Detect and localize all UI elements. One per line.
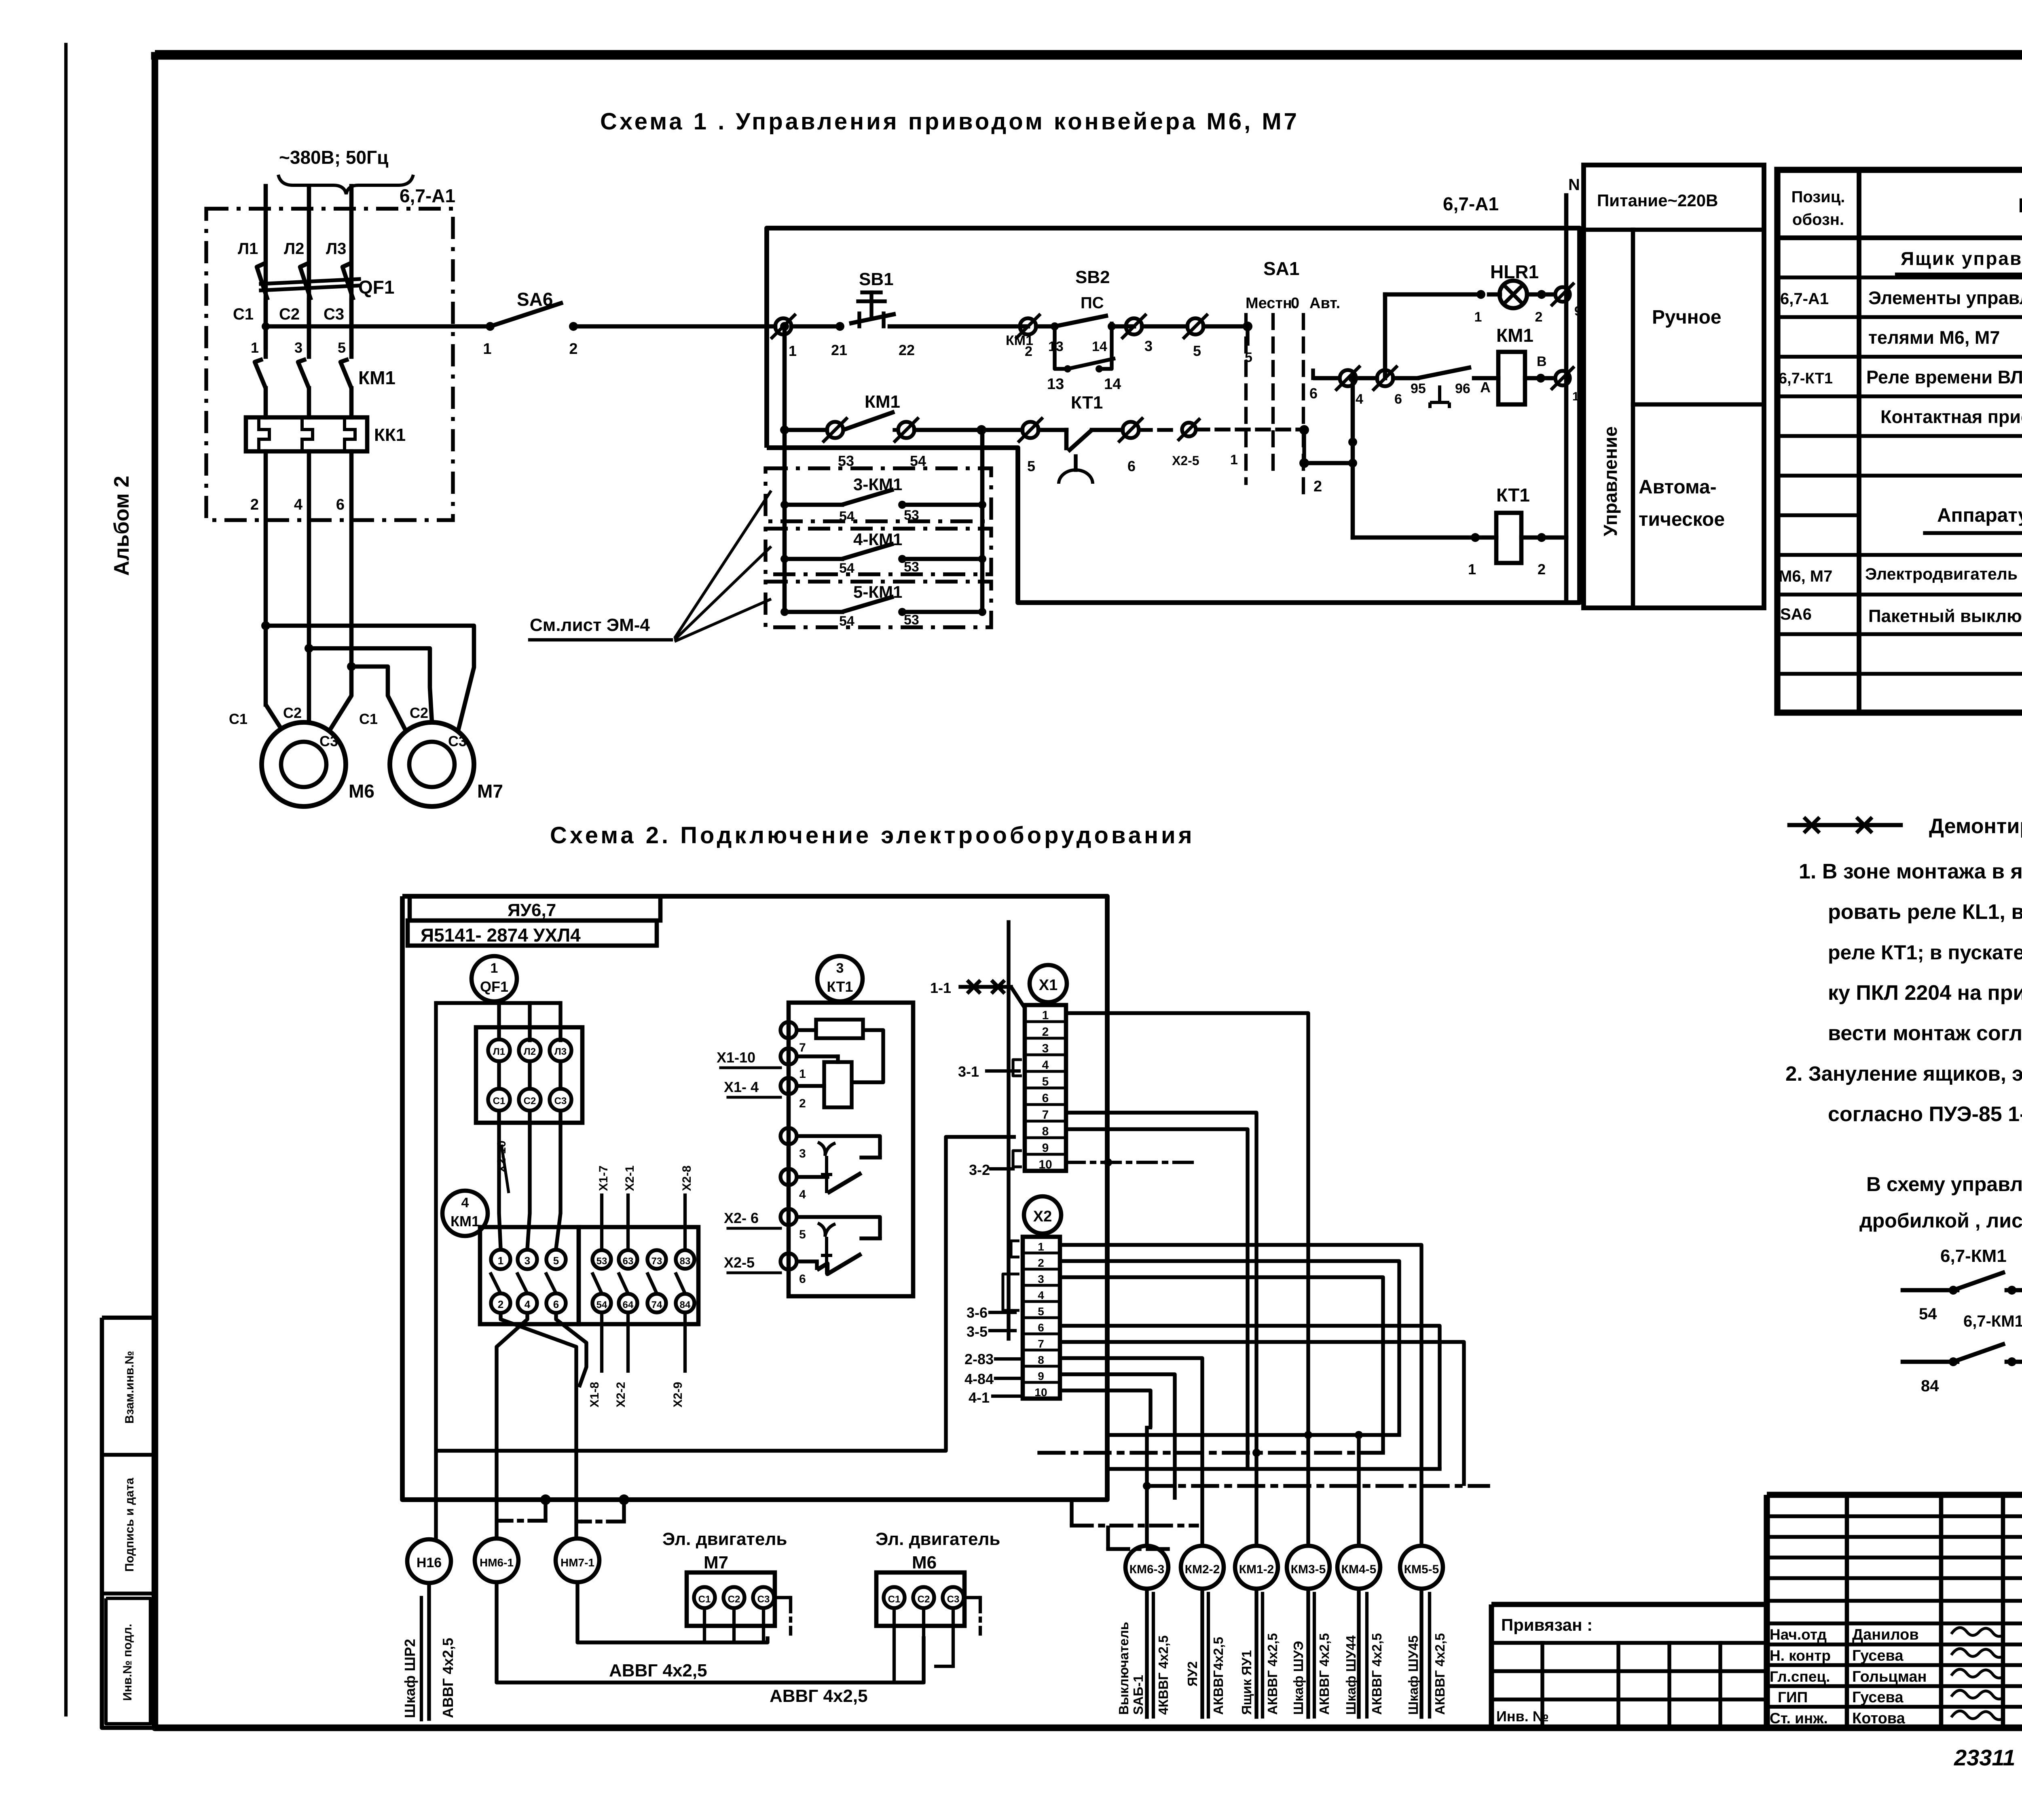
svg-text:5: 5 xyxy=(1027,458,1035,474)
wire lamp rung left xyxy=(1385,292,1481,297)
svg-text:Элементы управления электрод: Элементы управления электродвига- xyxy=(1868,288,2022,308)
svg-text:АКВВГ4х2,5: АКВВГ4х2,5 xyxy=(1211,1637,1226,1715)
svg-text:Эл. двигатель: Эл. двигатель xyxy=(876,1529,1000,1549)
wire branch to M7 C2 xyxy=(309,648,432,722)
svg-text:4: 4 xyxy=(461,1195,469,1211)
svg-text:Местн.: Местн. xyxy=(1246,295,1297,312)
svg-text:Х2-9: Х2-9 xyxy=(671,1382,685,1407)
parts table outer xyxy=(1777,170,2022,713)
svg-text:84: 84 xyxy=(1921,1377,1939,1395)
contactor coil KM1 xyxy=(1498,352,1525,404)
wire X2 row7 right xyxy=(1060,1342,1464,1486)
svg-text:~380В; 50Гц: ~380В; 50Гц xyxy=(279,147,388,168)
svg-text:6: 6 xyxy=(1309,385,1318,402)
svg-text:Гусева: Гусева xyxy=(1852,1689,1904,1706)
svg-text:5: 5 xyxy=(1193,343,1201,359)
position circle KM1 xyxy=(442,1191,488,1236)
svg-text:1: 1 xyxy=(1038,1240,1044,1253)
svg-text:14: 14 xyxy=(1104,376,1121,393)
KT1 coil inner xyxy=(797,1054,838,1058)
svg-text:4: 4 xyxy=(294,496,302,513)
svg-text:С1: С1 xyxy=(698,1594,711,1605)
QF1 terminal box xyxy=(476,1027,582,1123)
aux circles row1 xyxy=(592,1250,611,1269)
svg-text:53: 53 xyxy=(904,612,919,628)
X1 plug bracket row4 xyxy=(1013,1060,1022,1076)
svg-text:10: 10 xyxy=(1038,1158,1052,1171)
terminal 54 xyxy=(895,428,898,432)
svg-text:4-1: 4-1 xyxy=(969,1389,990,1406)
svg-text:5-КМ1: 5-КМ1 xyxy=(853,582,902,601)
svg-text:Х1- 4: Х1- 4 xyxy=(724,1079,759,1095)
wire X2 row3 right xyxy=(1060,1277,1383,1453)
node 2 KT1 xyxy=(1521,535,1566,540)
svg-text:3: 3 xyxy=(1038,1273,1044,1285)
wire branch to M7 C3 xyxy=(351,667,406,730)
svg-text:ГИП: ГИП xyxy=(1778,1689,1808,1706)
svg-text:QF1: QF1 xyxy=(480,978,508,995)
phase wire L1 xyxy=(264,186,268,348)
motor M7 ground dashdot xyxy=(775,1596,791,1599)
thermal relay KK1 xyxy=(246,417,367,451)
KT1 terminal 4 xyxy=(780,1169,797,1185)
svg-text:НМ7-1: НМ7-1 xyxy=(560,1556,594,1569)
svg-text:С2: С2 xyxy=(279,305,300,323)
vertical wire right of aux boxes xyxy=(980,430,985,612)
enclosure YaU67 xyxy=(402,896,1107,1500)
terminal 9 xyxy=(1555,287,1570,302)
svg-text:4: 4 xyxy=(799,1188,806,1201)
svg-text:73: 73 xyxy=(651,1256,662,1267)
SA1 contact dot rung1 xyxy=(1243,322,1252,331)
svg-text:2: 2 xyxy=(1038,1257,1044,1269)
svg-text:5: 5 xyxy=(553,1255,559,1267)
aux 4-KM1 wire xyxy=(785,557,842,561)
svg-text:КМ1-2: КМ1-2 xyxy=(1239,1563,1274,1576)
svg-text:Гольцман: Гольцман xyxy=(1852,1668,1927,1685)
svg-text:4-КМ1: 4-КМ1 xyxy=(853,530,902,549)
motor feed wire 3 xyxy=(349,451,354,667)
node 1 KT1 xyxy=(1471,533,1480,542)
svg-text:НLR1: НLR1 xyxy=(1490,261,1539,282)
svg-text:Ручное: Ручное xyxy=(1652,307,1722,328)
wire X2 row9 right xyxy=(1060,1374,1175,1500)
phase wire L2 xyxy=(307,186,311,348)
wire X2 row8 right xyxy=(1060,1358,1202,1546)
node 22 xyxy=(890,324,1028,329)
svg-text:2: 2 xyxy=(1313,478,1322,495)
KM1 circles row1 xyxy=(491,1250,510,1269)
svg-text:АВВГ 4х2,5: АВВГ 4х2,5 xyxy=(770,1686,868,1706)
svg-text:1: 1 xyxy=(789,343,797,359)
svg-text:SАБ-1: SАБ-1 xyxy=(1131,1675,1146,1715)
node 2 lamp xyxy=(1527,292,1555,297)
svg-text:4-84: 4-84 xyxy=(964,1371,994,1387)
bus wire 1 xyxy=(1107,1433,1399,1437)
wire X1 row10 dashdot right xyxy=(1066,1161,1197,1164)
motor feed wire 1 xyxy=(264,451,268,705)
svg-text:Шкаф ШУЭ: Шкаф ШУЭ xyxy=(1291,1641,1306,1715)
N line xyxy=(1564,195,1569,599)
svg-text:АКВВГ 4х2,5: АКВВГ 4х2,5 xyxy=(1369,1633,1384,1715)
wire lamp to KM coil rung xyxy=(1383,294,1387,378)
svg-text:4: 4 xyxy=(1042,1058,1049,1072)
svg-text:вести монтаж согласно схе: вести монтаж согласно схеме 2 xyxy=(1828,1022,2022,1045)
svg-text:Эл. двигатель: Эл. двигатель xyxy=(662,1529,787,1549)
mode divider vertical xyxy=(1631,230,1635,608)
svg-text:ровать реле КL1, вместо не: ровать реле КL1, вместо него установить xyxy=(1828,900,2022,924)
svg-text:обозн.: обозн. xyxy=(1792,211,1844,229)
svg-text:21: 21 xyxy=(831,342,847,358)
svg-text:С1: С1 xyxy=(359,711,378,727)
svg-text:64: 64 xyxy=(623,1299,634,1310)
ground hook dashdot right 1 xyxy=(1070,1500,1073,1526)
svg-text:5: 5 xyxy=(338,339,346,356)
switch SA6 xyxy=(486,322,495,331)
svg-text:Х2-5: Х2-5 xyxy=(724,1254,755,1271)
svg-text:Х1-10: Х1-10 xyxy=(717,1049,755,1066)
X1 plug bracket row10 xyxy=(1013,1151,1022,1167)
svg-text:Шкаф ШР2: Шкаф ШР2 xyxy=(402,1639,418,1718)
aux blades xyxy=(592,1272,602,1293)
svg-text:ЯУ2: ЯУ2 xyxy=(1185,1661,1200,1687)
svg-text:Позиц.: Позиц. xyxy=(1791,188,1845,206)
svg-text:SА6: SА6 xyxy=(517,289,553,310)
KM1 bottom diagonals xyxy=(501,1313,576,1539)
svg-text:2: 2 xyxy=(250,496,259,513)
KT1 terminal 1 xyxy=(780,1048,797,1064)
position circle QF1 xyxy=(472,956,517,1001)
terminal 2 SB2 xyxy=(1020,318,1036,334)
QF1 internal links xyxy=(497,1061,501,1089)
svg-text:6: 6 xyxy=(1042,1092,1049,1105)
parts table column lines xyxy=(1857,170,1861,713)
drop KM5-5 xyxy=(1421,1486,1422,1546)
svg-text:2: 2 xyxy=(498,1298,503,1310)
svg-text:2: 2 xyxy=(1538,561,1546,578)
svg-text:1: 1 xyxy=(483,341,491,358)
contact KM1 pole 1 xyxy=(264,326,268,357)
KM1 blades xyxy=(490,1272,501,1293)
svg-text:2: 2 xyxy=(799,1097,806,1110)
H16 cable down xyxy=(427,1583,431,1719)
junction dot bus 1 xyxy=(540,1494,551,1505)
svg-text:1. В зоне монтажа в ящик: 1. В зоне монтажа в ящике ЯУ6,7 : демонт… xyxy=(1799,860,2022,883)
svg-text:тическое: тическое xyxy=(1639,509,1725,530)
rung2 wire mid xyxy=(914,428,1022,432)
svg-text:Выключатель: Выключатель xyxy=(1116,1622,1131,1715)
contact 6,7-KM1 lower xyxy=(1903,1360,1957,1364)
terminal 53 xyxy=(827,422,843,438)
KM1 circles row2 xyxy=(491,1293,510,1313)
wire X1-10 hook xyxy=(436,1137,1016,1451)
svg-text:2: 2 xyxy=(1535,309,1543,325)
KT1 contact 5-6 xyxy=(797,1217,880,1238)
SA1 dashed line Mestn xyxy=(1244,315,1248,483)
motor M7 terminal wires xyxy=(703,1608,706,1642)
svg-text:SВ2: SВ2 xyxy=(1075,267,1110,287)
svg-text:КМ5-5: КМ5-5 xyxy=(1404,1563,1439,1576)
KT1 terminal 5 xyxy=(780,1209,797,1225)
bus wire 3 xyxy=(1107,1467,1440,1471)
svg-text:3: 3 xyxy=(525,1255,530,1267)
connector strip X2 xyxy=(1023,1237,1060,1399)
KM1 bypass branch xyxy=(1055,326,1068,369)
svg-text:М6: М6 xyxy=(349,781,374,802)
svg-text:6: 6 xyxy=(1038,1321,1044,1334)
svg-text:9: 9 xyxy=(1042,1141,1049,1155)
brace under supply label xyxy=(278,175,413,194)
svg-text:М7: М7 xyxy=(477,781,503,802)
svg-text:3: 3 xyxy=(799,1147,806,1160)
label bar Ya5141 xyxy=(408,921,657,946)
KM1 aux terminal box xyxy=(579,1227,698,1324)
svg-text:7: 7 xyxy=(1042,1108,1049,1122)
svg-text:Х2-8: Х2-8 xyxy=(680,1166,694,1191)
svg-text:Схема 1 . Управления приводо: Схема 1 . Управления приводом конвейера … xyxy=(600,108,1299,135)
svg-text:4: 4 xyxy=(1038,1289,1044,1302)
svg-text:М7: М7 xyxy=(704,1553,728,1572)
svg-text:КМ2-2: КМ2-2 xyxy=(1185,1563,1220,1576)
svg-text:АКВВГ 4х2,5: АКВВГ 4х2,5 xyxy=(1317,1633,1332,1715)
svg-text:Х2-2: Х2-2 xyxy=(614,1382,628,1407)
breaker QF1 crossbar xyxy=(261,279,359,284)
svg-text:Реле времени ВЛ64УХЛ4,1, 220В,: Реле времени ВЛ64УХЛ4,1, 220В, 50Гц xyxy=(1866,367,2022,387)
svg-text:8: 8 xyxy=(1038,1354,1044,1366)
svg-text:54: 54 xyxy=(839,614,854,629)
svg-text:4: 4 xyxy=(1356,392,1363,407)
HM7-1 cable down xyxy=(577,1582,768,1642)
svg-text:М6: М6 xyxy=(912,1553,937,1572)
svg-text:Демонтировать: Демонтировать xyxy=(1929,815,2022,838)
wire X2 row10 right xyxy=(1060,1390,1151,1428)
svg-text:В: В xyxy=(1537,354,1547,369)
svg-text:6: 6 xyxy=(336,496,345,513)
vertical wire rung1 to rung2 xyxy=(783,326,787,430)
svg-text:3: 3 xyxy=(836,961,844,976)
svg-text:КК1: КК1 xyxy=(374,425,406,445)
svg-text:КМ1: КМ1 xyxy=(1006,333,1033,348)
KT1 terminal 7 xyxy=(780,1022,797,1038)
KT1 delayed closing contact xyxy=(1038,428,1066,432)
svg-text:С2: С2 xyxy=(728,1594,740,1605)
svg-text:С3: С3 xyxy=(947,1594,960,1605)
svg-text:Питание~220В: Питание~220В xyxy=(1597,191,1718,210)
svg-text:54: 54 xyxy=(839,561,854,576)
breaker QF1 pole 3 xyxy=(343,263,353,300)
drop KM4-5 xyxy=(1357,1435,1360,1546)
svg-text:4: 4 xyxy=(525,1298,531,1310)
vertical wire to KT1 rung xyxy=(1351,378,1355,538)
wire X1 row7 right xyxy=(1066,1113,1256,1453)
svg-text:2: 2 xyxy=(569,341,577,358)
svg-text:6,7-А1: 6,7-А1 xyxy=(1780,290,1829,308)
terminal 5 rung2 xyxy=(1022,422,1038,438)
svg-text:3-2: 3-2 xyxy=(969,1162,990,1178)
svg-text:Инв.№ подл.: Инв.№ подл. xyxy=(121,1624,134,1701)
svg-text:Л3: Л3 xyxy=(554,1046,567,1057)
svg-text:С3: С3 xyxy=(448,733,467,749)
svg-text:5: 5 xyxy=(1042,1075,1049,1088)
SA1 dashed line Avt xyxy=(1302,315,1305,497)
KT1 terminal 2 xyxy=(780,1078,797,1094)
svg-text:Ящик управления Я5141-2874 У: Ящик управления Я5141-2874 УХЛ4 xyxy=(1901,248,2022,269)
svg-text:6,7-А1: 6,7-А1 xyxy=(400,185,455,206)
breaker QF1 pole 2 xyxy=(300,263,311,300)
svg-text:А: А xyxy=(1480,379,1491,396)
svg-text:ку ПКЛ 2204 на приставку П: ку ПКЛ 2204 на приставку ПКЛ 4004; произ… xyxy=(1828,981,2022,1005)
svg-text:С2: С2 xyxy=(918,1594,930,1605)
title block signature columns xyxy=(1845,1495,1849,1728)
sheet frame top thick line xyxy=(155,52,2022,60)
svg-text:1: 1 xyxy=(498,1255,503,1267)
bus wire 4 xyxy=(1147,1484,1488,1488)
contact SB2 with KM1 bypass xyxy=(1036,324,1055,329)
control mode box xyxy=(1584,165,1764,608)
cable circle КМ2-2 xyxy=(1181,1546,1224,1589)
svg-text:Котова: Котова xyxy=(1852,1710,1906,1727)
svg-text:Х1-8: Х1-8 xyxy=(588,1382,601,1407)
svg-text:С3: С3 xyxy=(319,733,338,749)
svg-text:КТ1: КТ1 xyxy=(1071,393,1103,413)
wire X2 row6 right xyxy=(1060,1326,1440,1469)
dashed box 6,7-A1 xyxy=(206,209,453,520)
KM1 main contact blades xyxy=(255,359,266,388)
HM6-1 cable down xyxy=(497,1582,924,1682)
title block small rows xyxy=(1767,1514,2022,1518)
terminal 5 rung1 xyxy=(1187,318,1203,334)
ground hook dashdot right 2 xyxy=(1106,1526,1110,1549)
QF1 feeder drops xyxy=(497,1003,501,1039)
wire X2 row1 right xyxy=(1060,1245,1421,1546)
svg-text:1: 1 xyxy=(1468,561,1476,578)
contact 6,7-KM1 upper xyxy=(1903,1288,1957,1293)
svg-text:2: 2 xyxy=(1042,1025,1049,1039)
vertical wire to aux boxes xyxy=(783,430,787,612)
svg-text:С3: С3 xyxy=(324,305,344,323)
svg-text:КМ1: КМ1 xyxy=(451,1213,480,1230)
motor M6 xyxy=(262,722,346,806)
dash wire to SA1 xyxy=(1196,427,1304,431)
position circle KT1 xyxy=(817,956,863,1001)
svg-text:Инв. №: Инв. № xyxy=(1496,1708,1549,1725)
svg-text:9: 9 xyxy=(1574,304,1582,318)
svg-text:63: 63 xyxy=(623,1256,634,1267)
svg-text:С1: С1 xyxy=(493,1096,505,1107)
svg-text:Х1-7: Х1-7 xyxy=(597,1166,610,1191)
connector circle X2 xyxy=(1024,1196,1061,1234)
svg-text:АВВГ 4х2,5: АВВГ 4х2,5 xyxy=(609,1661,707,1680)
svg-text:53: 53 xyxy=(904,508,919,523)
svg-text:95: 95 xyxy=(1411,381,1426,396)
svg-text:SА6: SА6 xyxy=(1780,605,1812,623)
svg-text:Данилов: Данилов xyxy=(1852,1626,1919,1643)
svg-text:6: 6 xyxy=(553,1298,559,1310)
wire SA1 avt to KT1 rung xyxy=(1299,425,1309,435)
H16 riser vertical xyxy=(434,1003,438,1540)
svg-text:КМ1: КМ1 xyxy=(1496,325,1533,346)
drop KM1-2 xyxy=(1254,1453,1258,1546)
svg-text:23311 - 01: 23311 - 01 xyxy=(1954,1745,2022,1770)
privyazan box xyxy=(1491,1604,1767,1728)
svg-text:Я5141- 2874 УХЛ4: Я5141- 2874 УХЛ4 xyxy=(421,925,581,946)
svg-text:9: 9 xyxy=(1038,1370,1044,1382)
svg-text:Альбом 2: Альбом 2 xyxy=(110,476,133,576)
svg-text:Х2- 6: Х2- 6 xyxy=(724,1210,759,1226)
svg-text:Наименование: Наименование xyxy=(2018,194,2022,217)
left strip box xyxy=(102,1318,155,1728)
mode divider horizontal xyxy=(1633,402,1764,407)
aux box 4-KM1 xyxy=(766,529,991,574)
label bar YaU67 xyxy=(410,896,660,921)
svg-text:3: 3 xyxy=(1042,1042,1049,1055)
svg-text:96: 96 xyxy=(1455,381,1470,396)
svg-text:6,7-КМ1: 6,7-КМ1 xyxy=(1963,1312,2022,1330)
svg-text:Ящик ЯУ1: Ящик ЯУ1 xyxy=(1239,1650,1254,1715)
svg-text:0: 0 xyxy=(1291,295,1299,312)
motor feed wire 2 xyxy=(307,451,311,648)
svg-text:Авт.: Авт. xyxy=(1309,295,1340,312)
svg-text:С1: С1 xyxy=(229,711,247,727)
drop KM2-2 xyxy=(1202,1486,1203,1546)
svg-text:Гл.спец.: Гл.спец. xyxy=(1770,1668,1830,1685)
KM1 terminal box xyxy=(480,1227,579,1324)
svg-text:В схему управления: В схему управления xyxy=(1866,1173,2022,1196)
svg-text:3-1: 3-1 xyxy=(958,1063,979,1080)
callout fan lines xyxy=(675,491,771,638)
svg-text:6: 6 xyxy=(1127,458,1136,474)
svg-text:1: 1 xyxy=(251,339,259,356)
svg-text:Шкаф ШУ45: Шкаф ШУ45 xyxy=(1406,1636,1421,1715)
KT1 contact 3-4 xyxy=(797,1136,880,1158)
svg-text:1-1: 1-1 xyxy=(930,980,951,996)
svg-text:КТ1: КТ1 xyxy=(827,978,853,995)
ground hook NM6-1 xyxy=(544,1500,547,1521)
parts table row lines xyxy=(1777,235,2022,240)
svg-text:5: 5 xyxy=(1038,1305,1044,1318)
aux stubs down xyxy=(600,1312,603,1371)
node 21 xyxy=(835,322,844,331)
svg-text:Л2: Л2 xyxy=(284,240,304,258)
svg-text:7: 7 xyxy=(1038,1337,1044,1350)
aux circles row2 xyxy=(592,1294,611,1312)
node 6 wire from SA1 xyxy=(1313,376,1340,381)
terminal 6 rung xyxy=(1377,370,1393,386)
svg-text:С2: С2 xyxy=(410,705,428,721)
svg-text:53: 53 xyxy=(904,559,919,575)
svg-text:83: 83 xyxy=(680,1256,691,1267)
wire coil to N xyxy=(1525,376,1555,381)
QF1 feeder from H16 riser xyxy=(436,1001,561,1005)
aux box 5-KM1 xyxy=(766,582,991,627)
bus wire 2 xyxy=(1039,1451,1383,1454)
svg-text:Л1: Л1 xyxy=(238,240,258,258)
wire X1 row8 right xyxy=(1066,1129,1248,1469)
svg-text:Х1: Х1 xyxy=(1039,977,1058,994)
svg-text:3-5: 3-5 xyxy=(967,1323,988,1340)
svg-text:Н16: Н16 xyxy=(417,1555,442,1570)
terminal 6 rung2 xyxy=(1123,422,1139,438)
wire branch to M7 C1 xyxy=(266,626,474,730)
breaker QF1 pole 1 xyxy=(257,263,268,300)
svg-text:6,7-КМ1: 6,7-КМ1 xyxy=(1940,1246,2007,1266)
svg-text:КМ4-5: КМ4-5 xyxy=(1341,1563,1377,1576)
aux 5-KM1 wire xyxy=(785,610,842,614)
rung2 wire left xyxy=(785,428,827,432)
KT1 terminal 6 xyxy=(780,1253,797,1270)
wire X1 row1 right xyxy=(1066,1013,1308,1435)
svg-text:2-83: 2-83 xyxy=(964,1351,994,1367)
